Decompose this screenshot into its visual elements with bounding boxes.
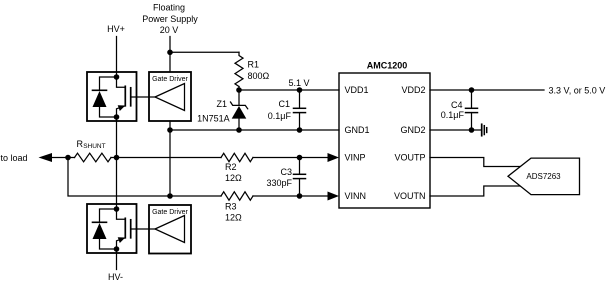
resistor R3	[221, 192, 253, 200]
svg-text:R2: R2	[225, 162, 237, 172]
transistor module Q2 (IGBT with anti-parallel diode)	[87, 204, 137, 253]
svg-text:Gate Driver: Gate Driver	[152, 76, 188, 83]
svg-text:AMC1200: AMC1200	[367, 60, 408, 70]
svg-text:VOUTP: VOUTP	[394, 153, 425, 163]
svg-text:SHUNT: SHUNT	[83, 143, 105, 150]
junction supply/R1	[167, 50, 173, 56]
wire R1 to 5.1V node	[238, 87, 240, 91]
wire shunt to HV rail	[111, 157, 117, 159]
resistor R1	[235, 52, 243, 86]
junction GND1/VINN net	[167, 193, 173, 199]
svg-text:to load: to load	[1, 153, 28, 163]
net VDD2 wire (3.3/5.0 V rail)	[430, 89, 544, 91]
wire R3 to VINN pin	[253, 195, 329, 197]
junction load/VINN branch	[65, 155, 71, 161]
zener diode Z1	[231, 90, 248, 130]
junction Z1/GND1	[236, 127, 242, 133]
junction C1/VDD1	[297, 87, 303, 93]
svg-text:C3: C3	[280, 167, 292, 177]
wire VINN branch from load node	[68, 158, 221, 197]
junction C4/GND2	[469, 127, 475, 133]
svg-text:C4: C4	[451, 100, 463, 110]
resistor R2	[221, 153, 253, 161]
wire HV+ to module Q1	[116, 37, 118, 78]
svg-text:R3: R3	[225, 202, 237, 212]
svg-text:Power Supply: Power Supply	[142, 14, 198, 24]
label RSHUNT	[77, 139, 106, 150]
svg-text:GND2: GND2	[400, 125, 425, 135]
wire Q2 emitter to HV-	[116, 249, 118, 270]
component U4 ADS7263 ADC	[508, 158, 580, 195]
net GND2 wire	[430, 129, 481, 131]
svg-text:VINP: VINP	[345, 153, 366, 163]
wire gate Q2 to driver	[131, 228, 155, 230]
capacitor C3	[294, 158, 306, 197]
ground GND2	[482, 124, 487, 135]
svg-text:VOUTN: VOUTN	[394, 191, 426, 201]
capacitor C1	[294, 90, 306, 130]
wire gate Q1 to driver	[131, 96, 155, 98]
svg-text:20 V: 20 V	[160, 25, 179, 35]
junction C3/VINP	[297, 155, 303, 161]
svg-text:VINN: VINN	[345, 191, 367, 201]
junction shunt/phase node	[114, 155, 120, 161]
svg-text:HV+: HV+	[107, 24, 125, 34]
svg-text:C1: C1	[278, 99, 290, 109]
svg-text:800Ω: 800Ω	[248, 71, 270, 81]
net VINP wire	[117, 157, 222, 159]
svg-text:HV-: HV-	[108, 272, 123, 282]
wire load line	[52, 157, 75, 159]
svg-text:0.1μF: 0.1μF	[268, 111, 292, 121]
svg-text:330pF: 330pF	[266, 178, 292, 188]
net GND1 wire	[170, 129, 339, 131]
arrow into VINP	[328, 153, 340, 162]
svg-text:1N751A: 1N751A	[197, 113, 230, 123]
op-amp U3 gate driver (bottom)	[149, 205, 191, 254]
wire floating supply to gate driver U2	[169, 37, 171, 73]
junction R1/Z1/VDD1	[236, 87, 242, 93]
wire R2 to VINP pin	[253, 157, 329, 159]
op-amp U1 AMC1200	[339, 60, 430, 208]
svg-text:Floating: Floating	[153, 3, 185, 13]
junction C3/VINN	[297, 193, 303, 199]
svg-text:VDD1: VDD1	[345, 85, 369, 95]
wire gate driver to GND1	[169, 121, 171, 130]
svg-text:Z1: Z1	[216, 99, 227, 109]
wire supply branch to R1	[170, 51, 239, 53]
wire VOUTN to ADC	[430, 186, 521, 196]
svg-text:Gate Driver: Gate Driver	[152, 209, 188, 216]
wire phase node vertical (Q1 emitter to Q2 collector)	[116, 117, 118, 209]
svg-text:3.3 V, or 5.0 V: 3.3 V, or 5.0 V	[549, 85, 606, 95]
resistor RSHUNT	[75, 153, 112, 162]
junction driver/GND1	[167, 127, 173, 133]
net VDD1 wire (5.1 V rail)	[239, 89, 339, 91]
svg-text:GND1: GND1	[345, 125, 370, 135]
svg-text:12Ω: 12Ω	[225, 173, 242, 183]
transistor module Q1 (IGBT with anti-parallel diode)	[87, 72, 137, 121]
svg-text:0.1μF: 0.1μF	[441, 110, 465, 120]
svg-text:R1: R1	[248, 60, 260, 70]
junction C4/VDD2	[469, 87, 475, 93]
capacitor C4	[466, 90, 478, 130]
wire GND1 down to shunt low side	[169, 130, 171, 196]
wire VOUTP to ADC	[430, 158, 521, 167]
arrow to load	[39, 153, 53, 162]
svg-text:VDD2: VDD2	[401, 85, 425, 95]
svg-text:12Ω: 12Ω	[225, 213, 242, 223]
junction C1/GND1	[297, 127, 303, 133]
op-amp U2 gate driver (top)	[149, 72, 191, 121]
arrow into VINN	[328, 192, 340, 201]
label Floating Power Supply 20 V	[142, 3, 198, 36]
svg-text:5.1 V: 5.1 V	[288, 78, 309, 88]
svg-text:ADS7263: ADS7263	[526, 172, 561, 181]
